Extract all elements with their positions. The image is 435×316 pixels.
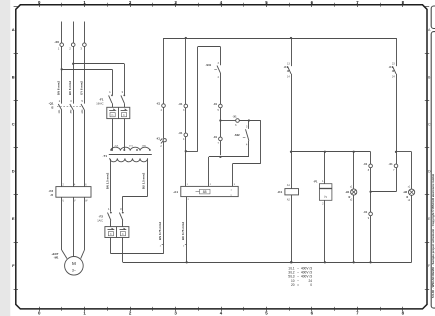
svg-text:BK 6 mm2: BK 6 mm2 — [68, 81, 72, 96]
svg-text:-P1: -P1 — [313, 180, 318, 184]
svg-text:3~: 3~ — [72, 268, 76, 272]
svg-text:-K1: -K1 — [389, 65, 394, 69]
svg-text:-X1: -X1 — [233, 115, 238, 119]
svg-text:F: F — [12, 263, 15, 268]
svg-text:h: h — [325, 195, 327, 199]
svg-text:5.5.40 · WSCAD DEMO · Sample p: 5.5.40 · WSCAD DEMO · Sample project sch… — [431, 174, 435, 298]
svg-text:=: = — [297, 283, 299, 287]
svg-text:BN 6 mm2: BN 6 mm2 — [57, 81, 61, 96]
svg-text:-F1: -F1 — [99, 98, 104, 102]
svg-text:8: 8 — [402, 311, 405, 316]
svg-text:-M1: -M1 — [54, 255, 59, 259]
svg-text:BU 0.75 mm2: BU 0.75 mm2 — [181, 222, 185, 241]
svg-text:-X1: -X1 — [363, 162, 368, 166]
svg-text:-A1: -A1 — [173, 190, 178, 194]
svg-text:-K1: -K1 — [284, 65, 289, 69]
svg-text:C: C — [12, 122, 15, 127]
svg-text:-X1: -X1 — [213, 102, 218, 106]
svg-text:A: A — [12, 27, 15, 32]
svg-text:-X1: -X1 — [156, 102, 161, 106]
svg-text:M: M — [72, 261, 76, 266]
svg-text:2W1: 2W1 — [142, 146, 147, 148]
svg-text:-X1: -X1 — [389, 162, 394, 166]
svg-text:2: 2 — [129, 311, 132, 316]
svg-text:C: C — [428, 123, 431, 127]
svg-text:88: 88 — [203, 190, 207, 194]
svg-text:20: 20 — [291, 283, 295, 287]
svg-text:7: 7 — [356, 311, 359, 316]
svg-text:16A/C: 16A/C — [96, 102, 103, 106]
svg-text:B: B — [12, 74, 15, 79]
svg-text:-T1: -T1 — [103, 154, 108, 158]
svg-text:E: E — [12, 216, 15, 221]
svg-text:6: 6 — [311, 311, 314, 316]
svg-text:-H1: -H1 — [345, 190, 350, 194]
svg-text:3: 3 — [174, 311, 177, 316]
svg-text:-H2: -H2 — [403, 190, 408, 194]
svg-text:5: 5 — [265, 311, 268, 316]
svg-text:0: 0 — [310, 283, 312, 287]
svg-text:-X1: -X1 — [178, 131, 183, 135]
svg-text:D: D — [12, 169, 15, 174]
svg-text:-X1: -X1 — [178, 102, 183, 106]
svg-text:-S02: -S02 — [234, 133, 240, 137]
svg-text:-S01: -S01 — [206, 63, 212, 67]
svg-text:-X0: -X0 — [54, 40, 59, 44]
svg-text:D: D — [428, 170, 431, 174]
svg-text:GY 6 mm2: GY 6 mm2 — [79, 81, 83, 95]
svg-text:-X1: -X1 — [213, 135, 218, 139]
svg-text:0: 0 — [38, 311, 41, 316]
svg-text:4: 4 — [220, 311, 223, 316]
svg-text:-X1: -X1 — [363, 210, 368, 214]
svg-text:-K1: -K1 — [277, 190, 282, 194]
svg-text:BN 1.5 mm2: BN 1.5 mm2 — [105, 172, 109, 189]
svg-text:-F2: -F2 — [99, 215, 104, 219]
svg-text:B: B — [428, 75, 431, 79]
svg-text:BU 1.5 mm2: BU 1.5 mm2 — [142, 172, 146, 189]
svg-text:-X1: -X1 — [156, 136, 161, 140]
svg-text:1A/C: 1A/C — [97, 219, 103, 223]
svg-text:A: A — [428, 28, 431, 32]
svg-text:BN 0.75 mm2: BN 0.75 mm2 — [158, 222, 162, 241]
svg-text:1: 1 — [83, 311, 86, 316]
